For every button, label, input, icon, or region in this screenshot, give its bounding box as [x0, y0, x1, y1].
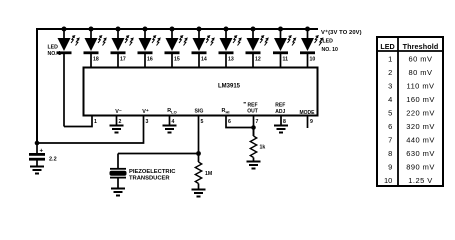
- piezoelectric transducer Y1: [110, 154, 127, 189]
- svg-text:OUT: OUT: [247, 109, 258, 115]
- svg-text:17: 17: [120, 57, 126, 63]
- svg-text:3: 3: [146, 119, 149, 125]
- resistor R 1k: [250, 128, 256, 162]
- LED D7 (LED NO. 7): [219, 27, 241, 68]
- pin 2 V- stub: [116, 116, 118, 126]
- svg-text:160 mV: 160 mV: [406, 95, 435, 104]
- pin 4 R_LO stub: [169, 116, 171, 126]
- ground at pin 4: [163, 126, 177, 133]
- svg-text:4: 4: [388, 95, 392, 104]
- wire piezo to signal node: [118, 153, 199, 155]
- ground under R 1M: [192, 190, 206, 197]
- svg-text:LED: LED: [48, 45, 59, 51]
- svg-text:NO. 1: NO. 1: [48, 51, 62, 57]
- pin 8 REF ADJ stub: [280, 116, 282, 126]
- LED D4 (LED NO. 4): [138, 27, 160, 68]
- pin 5 SIG wire down to signal node: [198, 116, 200, 154]
- LED D1 (LED NO. 1): [57, 27, 79, 127]
- svg-text:LM3915: LM3915: [218, 84, 241, 90]
- pin 1 stub and wire to LED1 cathode: [64, 116, 92, 127]
- pin 6 R_HI stub and wire to pin 7 node: [226, 116, 254, 128]
- svg-text:60 mV: 60 mV: [409, 55, 433, 64]
- svg-text:7: 7: [256, 119, 259, 125]
- ground at pin 8: [274, 126, 288, 133]
- svg-text:9: 9: [310, 119, 313, 125]
- ground under R 1k: [247, 162, 261, 169]
- LED D9 (LED NO. 9): [273, 27, 295, 68]
- LED D5 (LED NO. 5): [165, 27, 187, 68]
- svg-text:PIEZOELECTRIC: PIEZOELECTRIC: [129, 169, 176, 175]
- svg-text:10: 10: [384, 176, 392, 185]
- svg-text:V⁺(3V TO 20V): V⁺(3V TO 20V): [321, 29, 362, 36]
- node pin7 / R 1k junction: [251, 125, 256, 130]
- svg-text:110 mV: 110 mV: [407, 82, 435, 91]
- svg-text:LED: LED: [380, 42, 394, 51]
- svg-text:630 mV: 630 mV: [406, 149, 435, 158]
- capacitor C1 2.2: [29, 143, 45, 166]
- svg-text:1: 1: [388, 55, 392, 64]
- resistor R 1M: [195, 154, 201, 190]
- svg-text:3: 3: [388, 82, 392, 91]
- svg-text:RHI: RHI: [222, 108, 230, 115]
- LED D2 (LED NO. 2): [84, 27, 106, 68]
- svg-text:1k: 1k: [260, 145, 266, 151]
- pin 7 REF OUT stub: [253, 116, 255, 137]
- node V+ / C1 junction: [35, 141, 40, 146]
- svg-text:8: 8: [388, 149, 392, 158]
- svg-text:2: 2: [388, 68, 392, 77]
- svg-text:6: 6: [228, 119, 231, 125]
- svg-text:+: +: [40, 149, 44, 155]
- svg-text:Threshold: Threshold: [403, 42, 439, 51]
- pin 9 MODE stub (open): [307, 116, 309, 129]
- svg-text:5: 5: [201, 119, 204, 125]
- svg-text:10: 10: [310, 57, 316, 63]
- node signal junction (pin5/piezo/R 1M): [196, 151, 201, 156]
- LED D10 (LED NO. 10): [300, 27, 322, 68]
- svg-text:REF: REF: [275, 103, 285, 109]
- svg-text:2: 2: [119, 119, 122, 125]
- svg-text:80 mV: 80 mV: [409, 68, 433, 77]
- svg-text:V⁻: V⁻: [115, 109, 122, 115]
- svg-text:16: 16: [147, 57, 153, 63]
- svg-text:V⁺: V⁺: [142, 109, 149, 115]
- ground under piezo: [111, 189, 125, 196]
- ground under C1: [30, 167, 44, 174]
- svg-text:5: 5: [388, 109, 392, 118]
- LED D8 (LED NO. 8): [246, 27, 268, 68]
- pin label REF OUT: [244, 102, 247, 104]
- svg-text:2.2: 2.2: [49, 157, 57, 163]
- table LED thresholds: [377, 37, 443, 186]
- svg-text:440 mV: 440 mV: [406, 136, 435, 145]
- wire V+ horizontal from node to pin 3: [37, 116, 144, 144]
- svg-text:18: 18: [93, 57, 99, 63]
- svg-text:15: 15: [174, 57, 180, 63]
- svg-text:REF: REF: [248, 102, 258, 108]
- svg-text:1M: 1M: [205, 171, 212, 177]
- svg-text:8: 8: [283, 119, 286, 125]
- svg-text:4: 4: [172, 119, 175, 125]
- svg-text:220 mV: 220 mV: [406, 109, 435, 118]
- ground at pin 2: [110, 126, 124, 133]
- svg-text:6: 6: [388, 122, 392, 131]
- LED D3 (LED NO. 3): [111, 27, 133, 68]
- svg-text:14: 14: [201, 57, 207, 63]
- svg-text:12: 12: [255, 57, 261, 63]
- svg-text:11: 11: [283, 57, 289, 63]
- op-amp U1 LM3915 IC body: [84, 68, 318, 116]
- svg-text:NO. 10: NO. 10: [322, 47, 339, 53]
- svg-text:320 mV: 320 mV: [406, 122, 435, 131]
- svg-text:LED: LED: [323, 39, 334, 45]
- svg-text:9: 9: [388, 163, 392, 172]
- wire top V+ rail with left drop to V+ node: [37, 29, 318, 143]
- svg-text:13: 13: [228, 57, 234, 63]
- svg-text:1.25 V: 1.25 V: [408, 176, 432, 185]
- svg-text:7: 7: [388, 136, 392, 145]
- svg-text:MODE: MODE: [300, 110, 316, 116]
- svg-text:TRANSDUCER: TRANSDUCER: [129, 175, 170, 181]
- svg-text:SIG: SIG: [195, 109, 204, 115]
- svg-text:RLO: RLO: [167, 108, 176, 115]
- svg-text:890 mV: 890 mV: [406, 163, 435, 172]
- svg-text:ADJ: ADJ: [275, 109, 285, 115]
- LED D6 (LED NO. 6): [192, 27, 214, 68]
- svg-text:1: 1: [94, 119, 97, 125]
